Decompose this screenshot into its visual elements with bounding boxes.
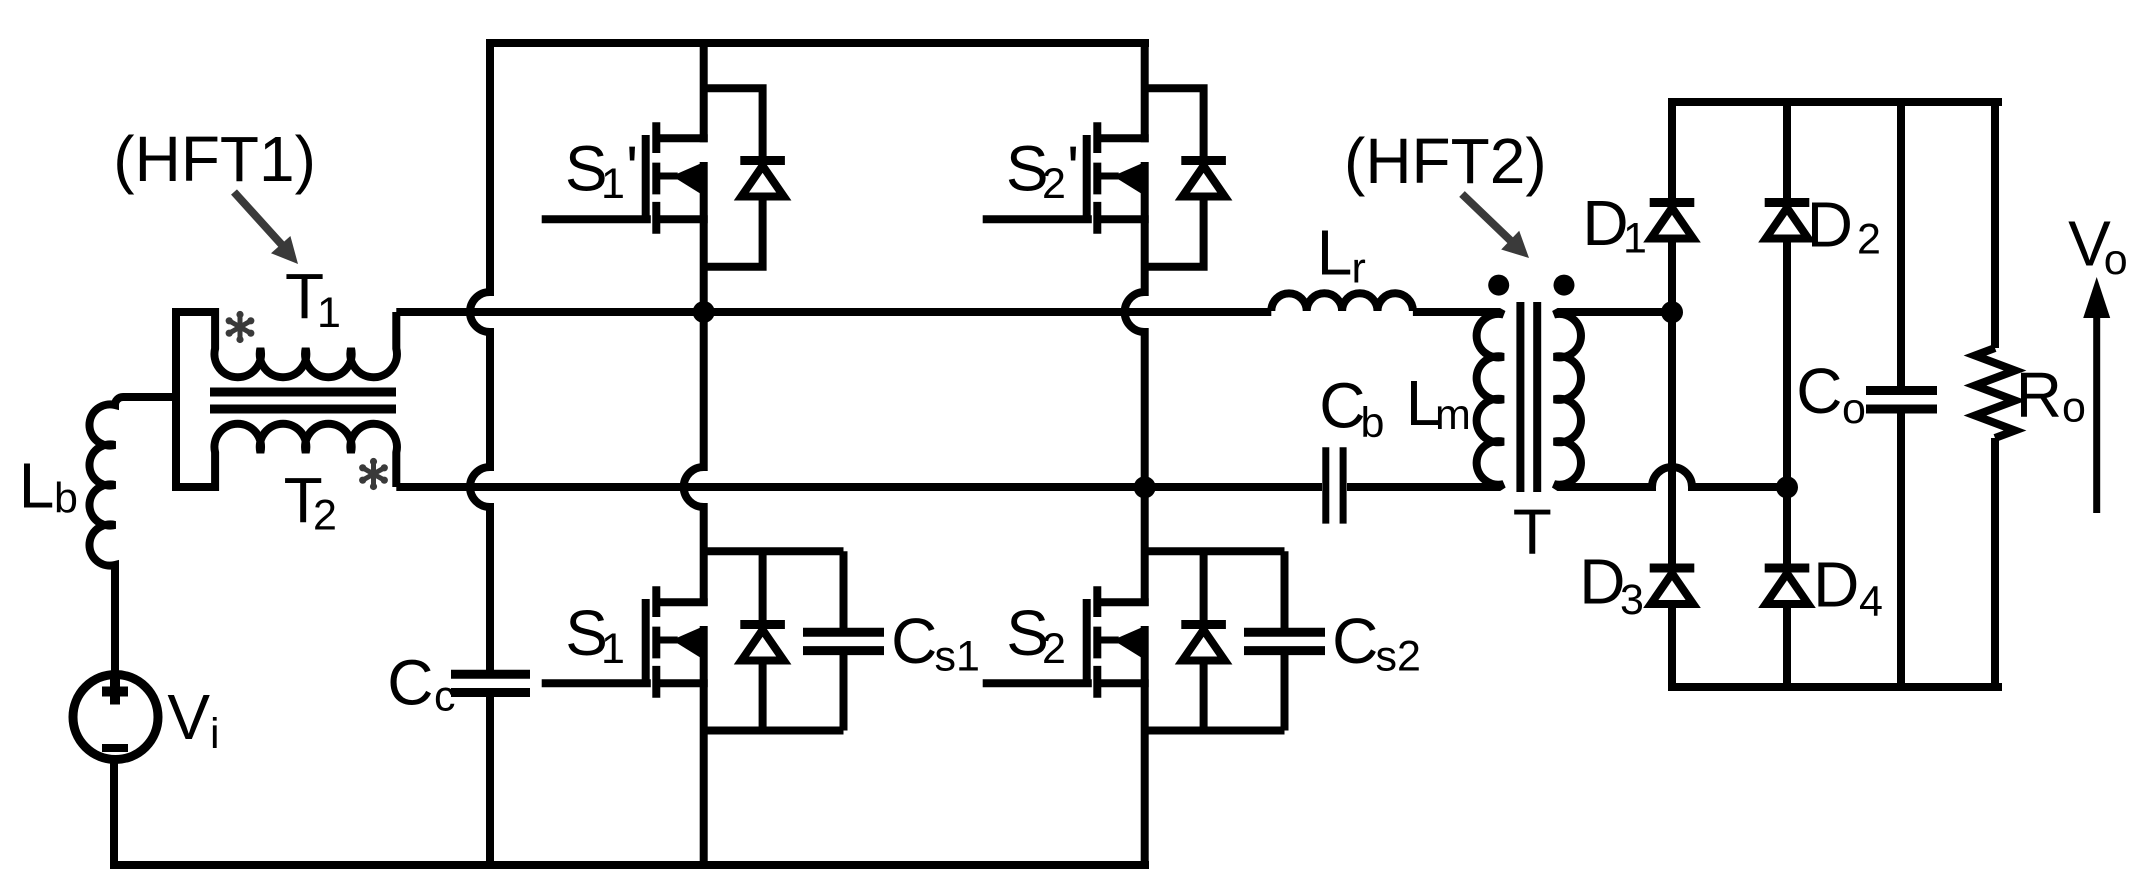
svg-text:D: D <box>1579 545 1625 617</box>
svg-text:4: 4 <box>1859 578 1883 626</box>
svg-text:2: 2 <box>1857 216 1881 264</box>
svg-text:b: b <box>54 475 78 523</box>
svg-text:D: D <box>1813 549 1859 621</box>
svg-text:r: r <box>1352 245 1366 293</box>
svg-text:R: R <box>2016 359 2062 431</box>
svg-text:s1: s1 <box>935 633 980 681</box>
svg-text:o: o <box>1842 385 1866 433</box>
svg-text:C: C <box>1319 370 1365 442</box>
svg-text:1: 1 <box>317 289 341 337</box>
svg-text:2: 2 <box>1042 160 1066 208</box>
svg-text:1: 1 <box>1623 215 1647 263</box>
svg-text:i: i <box>210 710 220 758</box>
svg-text:m: m <box>1435 391 1471 439</box>
svg-text:V: V <box>167 681 210 753</box>
svg-text:C: C <box>891 605 937 677</box>
svg-text:2: 2 <box>1042 625 1066 673</box>
svg-text:C: C <box>387 647 433 719</box>
svg-text:D: D <box>1807 188 1853 260</box>
svg-text:(HFT2): (HFT2) <box>1344 125 1547 197</box>
svg-text:o: o <box>2062 384 2086 432</box>
svg-text:T: T <box>1513 495 1552 567</box>
svg-text:': ' <box>626 133 638 205</box>
svg-text:1: 1 <box>601 160 625 208</box>
svg-text:1: 1 <box>601 625 625 673</box>
svg-text:L: L <box>1317 217 1353 289</box>
svg-text:C: C <box>1796 355 1842 427</box>
svg-text:C: C <box>1332 605 1378 677</box>
svg-text:': ' <box>1067 133 1079 205</box>
svg-text:L: L <box>19 450 55 522</box>
svg-text:c: c <box>434 673 456 721</box>
svg-text:3: 3 <box>1620 576 1644 624</box>
svg-text:(HFT1): (HFT1) <box>113 123 316 195</box>
svg-text:2: 2 <box>313 491 337 539</box>
svg-text:b: b <box>1361 399 1385 447</box>
svg-text:s2: s2 <box>1376 633 1421 681</box>
svg-text:D: D <box>1582 187 1628 259</box>
svg-text:o: o <box>2104 236 2128 284</box>
